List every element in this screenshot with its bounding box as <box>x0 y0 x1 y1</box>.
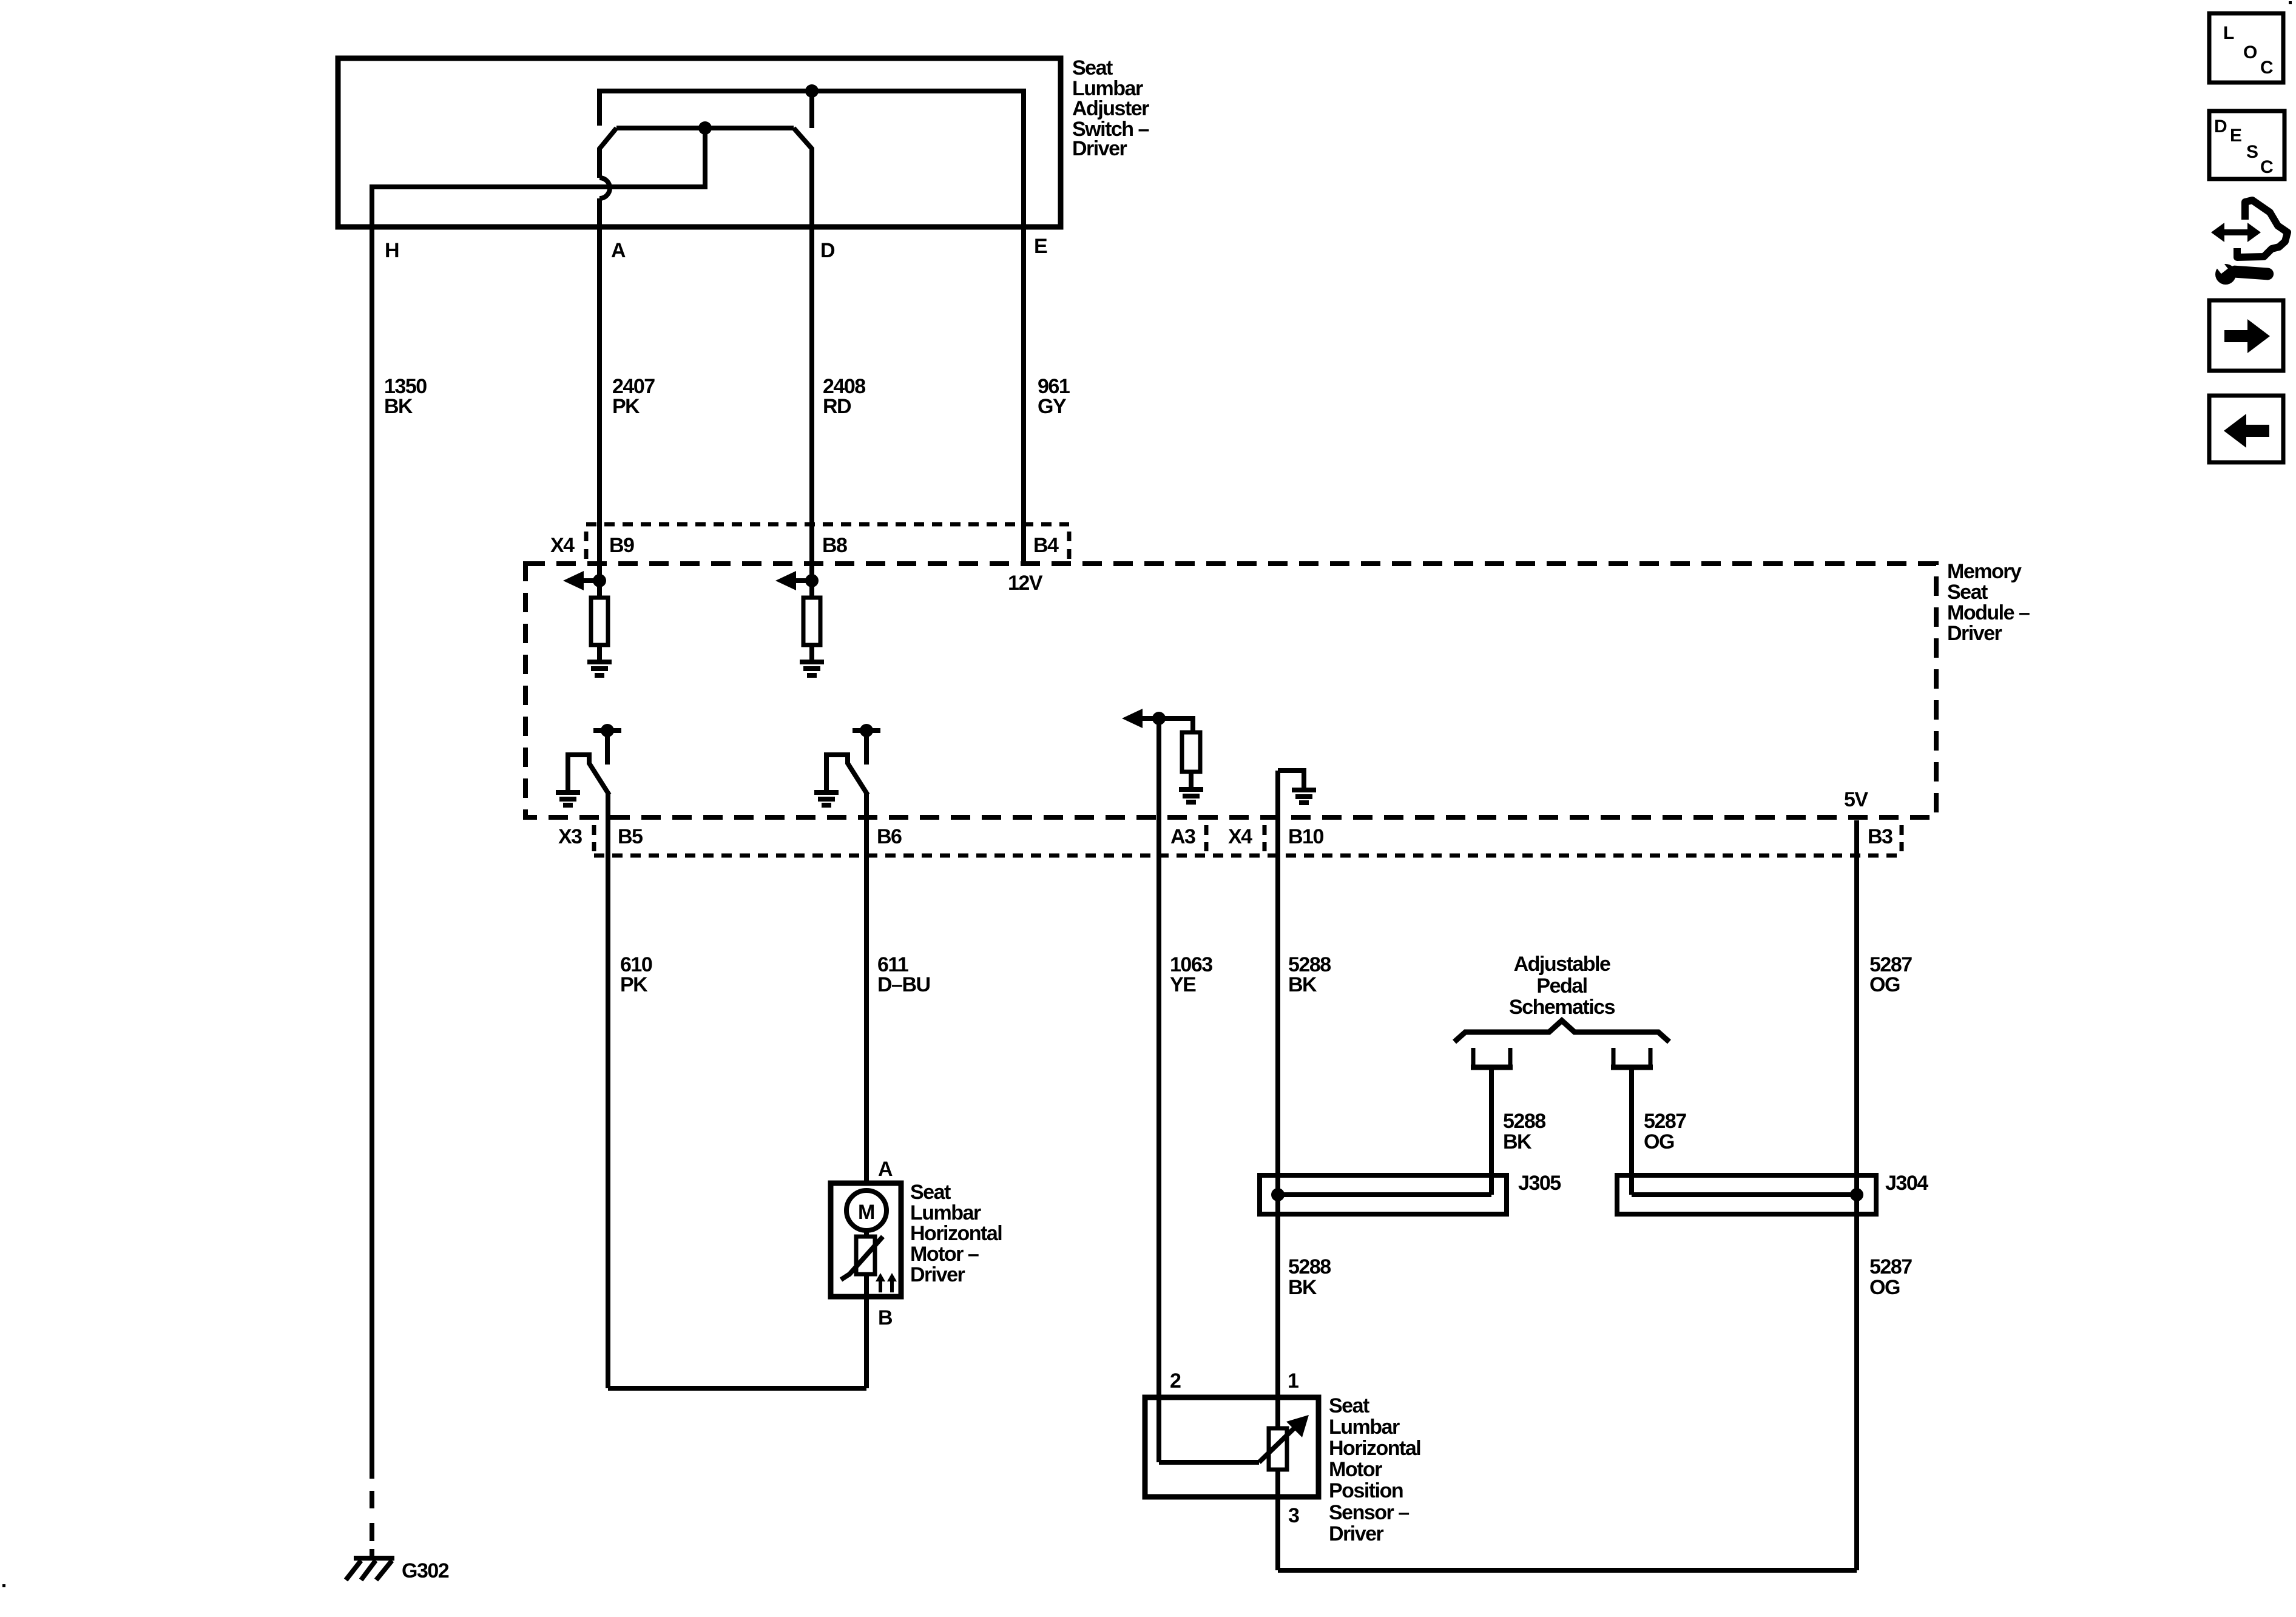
svg-text:B9: B9 <box>609 534 634 557</box>
svg-text:C: C <box>2260 157 2274 177</box>
svg-text:Motor: Motor <box>1329 1458 1382 1481</box>
svg-text:A: A <box>878 1158 893 1181</box>
svg-text:A: A <box>611 239 626 262</box>
svg-text:5287: 5287 <box>1869 1255 1912 1278</box>
svg-text:Lumbar: Lumbar <box>910 1201 981 1224</box>
svg-text:2: 2 <box>1170 1369 1181 1393</box>
svg-text:X4: X4 <box>550 534 575 557</box>
svg-text:O: O <box>2243 42 2257 62</box>
svg-text:Seat: Seat <box>910 1181 951 1204</box>
svg-text:D: D <box>2214 116 2227 137</box>
svg-text:Seat: Seat <box>1329 1394 1369 1417</box>
svg-text:Motor –: Motor – <box>910 1243 979 1266</box>
svg-text:RD: RD <box>823 395 851 418</box>
svg-text:5288: 5288 <box>1288 1255 1331 1278</box>
svg-text:GY: GY <box>1038 395 1067 418</box>
svg-text:Driver: Driver <box>1329 1522 1384 1545</box>
svg-text:Driver: Driver <box>1947 622 2002 645</box>
svg-text:Memory: Memory <box>1947 560 2022 583</box>
svg-text:J304: J304 <box>1885 1172 1928 1195</box>
svg-text:Horizontal: Horizontal <box>1329 1437 1420 1460</box>
svg-text:YE: YE <box>1170 973 1196 996</box>
svg-text:B10: B10 <box>1288 825 1323 848</box>
svg-text:Schematics: Schematics <box>1509 996 1615 1019</box>
svg-text:12V: 12V <box>1008 572 1043 595</box>
svg-text:5287: 5287 <box>1644 1110 1686 1133</box>
svg-text:PK: PK <box>612 395 640 418</box>
svg-text:B5: B5 <box>618 825 643 848</box>
svg-text:Lumbar: Lumbar <box>1329 1416 1400 1439</box>
svg-text:OG: OG <box>1869 973 1900 996</box>
svg-text:G302: G302 <box>402 1559 449 1582</box>
svg-text:Seat: Seat <box>1072 56 1113 79</box>
svg-text:Adjuster: Adjuster <box>1072 97 1149 120</box>
svg-text:BK: BK <box>384 395 413 418</box>
svg-text:Driver: Driver <box>1072 137 1127 160</box>
svg-text:J305: J305 <box>1518 1172 1561 1195</box>
svg-text:Pedal: Pedal <box>1536 974 1587 998</box>
svg-text:D: D <box>820 239 835 262</box>
svg-text:1: 1 <box>1288 1369 1298 1393</box>
svg-text:5288: 5288 <box>1503 1110 1545 1133</box>
svg-text:PK: PK <box>620 973 648 996</box>
svg-text:E: E <box>2230 126 2242 146</box>
svg-text:X3: X3 <box>558 825 582 848</box>
svg-text:Position: Position <box>1329 1479 1403 1502</box>
svg-text:M: M <box>858 1201 874 1224</box>
svg-text:B8: B8 <box>822 534 847 557</box>
svg-text:BK: BK <box>1288 973 1317 996</box>
svg-text:H: H <box>385 239 399 262</box>
svg-text:Adjustable: Adjustable <box>1514 953 1610 976</box>
svg-text:B6: B6 <box>877 825 902 848</box>
svg-text:BK: BK <box>1288 1276 1317 1299</box>
svg-text:Module –: Module – <box>1947 601 2030 624</box>
svg-text:S: S <box>2246 142 2258 162</box>
svg-text:Sensor –: Sensor – <box>1329 1501 1409 1524</box>
svg-text:X4: X4 <box>1228 825 1252 848</box>
svg-text:A3: A3 <box>1170 825 1195 848</box>
svg-text:E: E <box>1034 235 1047 258</box>
svg-text:B3: B3 <box>1868 825 1893 848</box>
svg-text:Driver: Driver <box>910 1263 965 1286</box>
svg-text:Seat: Seat <box>1947 581 1988 604</box>
svg-text:BK: BK <box>1503 1130 1532 1153</box>
svg-text:L: L <box>2223 23 2234 43</box>
svg-text:OG: OG <box>1869 1276 1900 1299</box>
svg-text:OG: OG <box>1644 1130 1674 1153</box>
svg-text:3: 3 <box>1288 1504 1299 1527</box>
svg-text:B: B <box>878 1306 893 1329</box>
svg-text:C: C <box>2260 58 2274 78</box>
svg-text:B4: B4 <box>1033 534 1059 557</box>
svg-text:Horizontal: Horizontal <box>910 1222 1002 1245</box>
svg-text:D–BU: D–BU <box>877 973 930 996</box>
svg-text:5V: 5V <box>1844 788 1868 811</box>
